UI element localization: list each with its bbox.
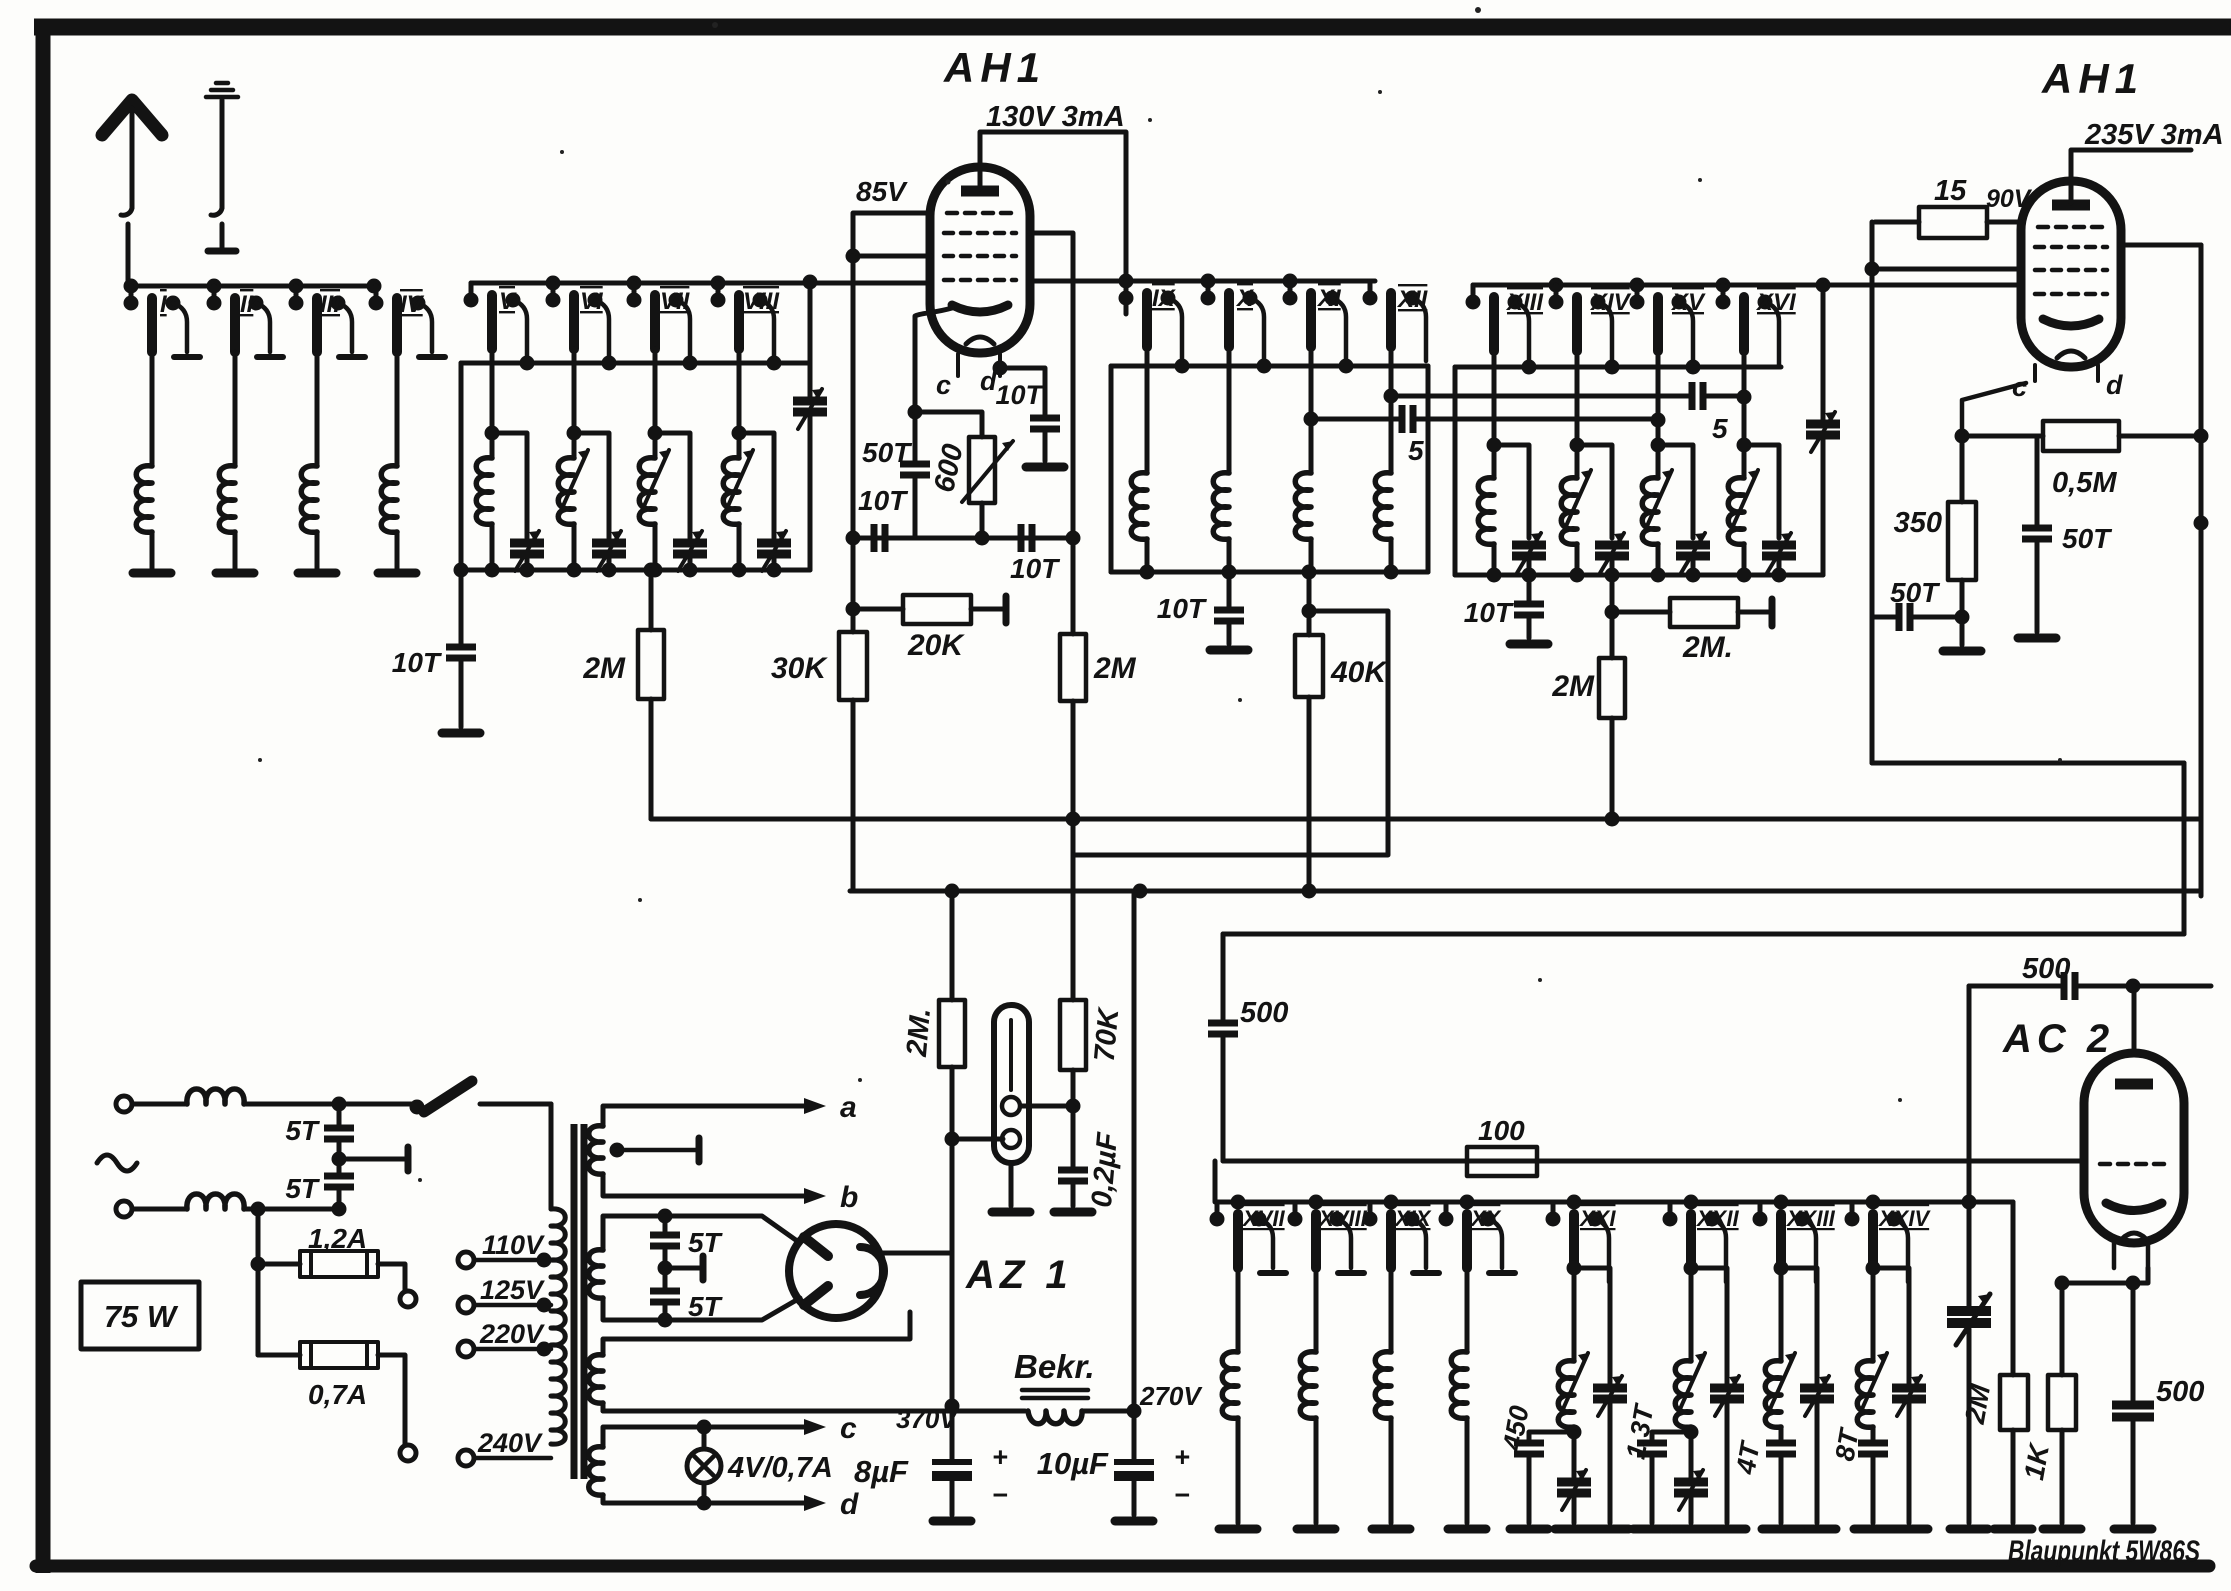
tuned circuit XXIII [1781, 1268, 1817, 1523]
switch contact V [464, 283, 528, 363]
bus V-VIII to tube grid wire [471, 281, 931, 286]
svg-text:5T: 5T [688, 1291, 724, 1322]
bus E grid AC2 [1223, 1159, 2083, 1164]
svg-text:50T: 50T [2062, 523, 2113, 554]
resistor 2M vertical [1599, 658, 1625, 718]
svg-text:2M: 2M [1093, 652, 1137, 685]
svg-text:1K: 1K [2018, 1440, 2055, 1482]
box bottom wire tube2 [1872, 761, 2184, 766]
pin c [956, 354, 960, 376]
svg-text:X: X [1235, 285, 1255, 312]
svg-text:AH1: AH1 [2041, 55, 2144, 102]
svg-text:20K: 20K [907, 629, 965, 662]
trimmer under XXII [1689, 1432, 1694, 1523]
svg-text:XV: XV [1670, 289, 1706, 316]
wire 270V vertical [1132, 891, 1137, 1411]
tuned circuit XIV [1577, 351, 1612, 575]
svg-text:10T: 10T [392, 647, 443, 678]
node fuse feed [251, 1202, 266, 1217]
svg-text:VII: VII [660, 288, 691, 315]
bus D [1223, 932, 2184, 937]
resistor 1K [2060, 1283, 2065, 1523]
bottom bus V-VIII [461, 568, 810, 573]
switch contact XXII [1663, 1202, 1727, 1282]
svg-text:85V: 85V [856, 176, 908, 207]
fuse 0,7A [258, 1355, 405, 1444]
mains switch [410, 1100, 425, 1115]
transformer core [574, 1124, 584, 1479]
bus A [651, 817, 2201, 822]
switch contact I [124, 286, 201, 357]
capacitor 8uF [950, 1406, 955, 1515]
switch contact IV [369, 286, 446, 357]
coil L-XIX [1389, 1268, 1394, 1523]
svg-text:Bekr.: Bekr. [1014, 1348, 1095, 1385]
svg-text:0,7A: 0,7A [308, 1379, 367, 1410]
svg-text:AH1: AH1 [943, 44, 1046, 91]
ground under 350 [1960, 617, 1965, 645]
svg-text:VI: VI [580, 288, 604, 315]
svg-text:XX: XX [1469, 1206, 1502, 1231]
svg-text:XIX: XIX [1393, 1206, 1432, 1231]
coil L-IV [395, 352, 400, 466]
switch contact XIII [1466, 285, 1530, 365]
svg-text:c: c [936, 370, 951, 400]
tuned circuit XXIV [1873, 1268, 1909, 1523]
svg-text:−: − [1174, 1480, 1190, 1510]
box edges IX-XII [1111, 366, 1428, 572]
coil IX [1145, 347, 1150, 572]
coil L-III [315, 352, 320, 466]
capacitor 5T filament lower [650, 1291, 680, 1302]
svg-text:XXIV: XXIV [1877, 1206, 1931, 1231]
tuned circuit XVI [1744, 351, 1779, 575]
svg-text:−: − [992, 1480, 1008, 1510]
mains choke lower [132, 1207, 187, 1212]
svg-text:40K: 40K [1330, 656, 1388, 689]
coil XII [1389, 347, 1394, 572]
svg-text:220V: 220V [479, 1319, 545, 1349]
svg-text:V: V [499, 288, 517, 315]
svg-text:II: II [240, 291, 255, 318]
svg-text:XVII: XVII [1241, 1206, 1285, 1231]
AZ1 output wire [883, 1251, 952, 1256]
capacitor 10T under IX-XII [1227, 572, 1232, 644]
svg-text:10T: 10T [1464, 597, 1515, 628]
capacitor 50T series [1872, 615, 1962, 620]
switch contact X [1201, 281, 1265, 361]
switch contact XII [1363, 281, 1427, 361]
switch contact XIV [1549, 285, 1613, 365]
svg-text:5: 5 [1712, 413, 1728, 444]
left feed vertical tube2 [1870, 222, 1875, 763]
capacitor 450 [1529, 1432, 1574, 1523]
frame border bottom [36, 1560, 2209, 1573]
coil L-I [150, 352, 155, 466]
cathode link tube2 [1962, 383, 2026, 436]
resistor 70K [1071, 855, 1076, 1170]
tube U1 AH1 [930, 167, 1030, 353]
resistor 2M output [2011, 1202, 2016, 1523]
svg-text:IV: IV [400, 291, 425, 318]
earth ground terminal [206, 83, 238, 251]
coil L-XVIII [1314, 1268, 1319, 1523]
antenna bus wire [128, 284, 376, 289]
switch contact XVII [1210, 1202, 1287, 1273]
variable capacitor on V-VIII right edge [808, 283, 813, 570]
bank XIII-XVI top bus [1473, 283, 2021, 288]
antenna symbol [102, 100, 162, 286]
switch contact VI [546, 283, 610, 363]
svg-text:10T: 10T [995, 380, 1044, 410]
switch contact IX [1119, 281, 1183, 361]
wire grid2 tube2 [1872, 267, 2021, 272]
switch contact XI [1283, 281, 1347, 361]
bottom bus IX-XII [1111, 570, 1428, 575]
wire 30K feed [851, 256, 856, 538]
tube U2 AH1 [2021, 181, 2121, 367]
svg-text:500: 500 [1240, 997, 1288, 1029]
box 75W [81, 1282, 199, 1349]
svg-text:+: + [992, 1442, 1008, 1472]
switch contact VIII [711, 283, 775, 363]
svg-text:2M: 2M [582, 652, 626, 685]
riser bus D right [2182, 763, 2187, 934]
capacitor 10T at pin d [1030, 418, 1060, 429]
capacitor 5T filament upper [658, 1209, 673, 1224]
switch contact XIX [1363, 1202, 1440, 1273]
capacitor 500 top left [1221, 934, 1226, 1161]
svg-text:1,2A: 1,2A [308, 1223, 367, 1254]
svg-text:XVIII: XVIII [1317, 1206, 1368, 1231]
mains choke upper [132, 1102, 187, 1107]
capacitor 500 cathode [2131, 1283, 2136, 1523]
switch contact XVIII [1288, 1202, 1365, 1273]
midline bus IX-XII [1111, 364, 1428, 369]
svg-text:70K: 70K [1089, 1005, 1126, 1063]
wire XII to cap 5 [1384, 389, 1399, 404]
rectifier tube AZ1 [789, 1224, 883, 1318]
svg-text:15: 15 [1934, 175, 1967, 207]
frame border top [34, 19, 2231, 36]
svg-text:4V/0,7A: 4V/0,7A [727, 1452, 833, 1484]
svg-text:100: 100 [1478, 1115, 1525, 1146]
right vertical V1 [2199, 245, 2204, 896]
coil L-XVII [1236, 1268, 1241, 1523]
capacitor 4T [1766, 1443, 1796, 1454]
svg-text:75 W: 75 W [104, 1299, 179, 1334]
svg-text:XII: XII [1396, 286, 1429, 313]
tuned circuit XXI [1574, 1268, 1610, 1523]
screen exit wire tube2 [2119, 243, 2201, 248]
svg-text:90V: 90V [1986, 185, 2033, 213]
tuned circuit XXII [1691, 1268, 1727, 1523]
capacitor 10uF [1132, 1411, 1137, 1515]
node between 5T [332, 1152, 347, 1167]
resistor 0,5M [1962, 434, 2201, 439]
frame border left [36, 20, 51, 1573]
switch contact XXIII [1753, 1202, 1817, 1282]
svg-text:350: 350 [1894, 507, 1942, 539]
potentiometer 600 [915, 412, 982, 538]
mains terminal lower [116, 1201, 132, 1217]
trimmer under XXI [1572, 1432, 1577, 1523]
node filament mid [658, 1261, 673, 1276]
switch contact XX [1439, 1202, 1516, 1273]
tuned circuit VIII [739, 349, 774, 570]
svg-text:XXIII: XXIII [1785, 1206, 1836, 1231]
resistor 2M horizontal [1610, 575, 1615, 658]
svg-text:2M: 2M [1551, 670, 1595, 703]
coil L-XX [1465, 1268, 1470, 1523]
tuned circuit VI [574, 349, 609, 570]
magic eye tube [994, 1005, 1029, 1163]
capacitor 1,3T [1652, 1432, 1691, 1523]
bottom bus XIII-XVI [1455, 573, 1823, 578]
capacitor 50T shunt [2035, 436, 2040, 632]
svg-text:VIII: VIII [743, 288, 780, 315]
svg-text:240V: 240V [477, 1428, 543, 1458]
coil XI [1309, 347, 1314, 572]
svg-text:XVI: XVI [1755, 289, 1797, 316]
svg-text:50T: 50T [862, 437, 913, 468]
cathode wire [915, 308, 952, 538]
tap 220V [458, 1341, 474, 1357]
secondary winding a-b [603, 1106, 806, 1126]
pin d tube2 [2096, 365, 2100, 381]
coil L-II [233, 352, 238, 466]
capacitor 5T upper [337, 1104, 342, 1209]
oscillator bottom bus [853, 536, 1073, 541]
svg-text:10T: 10T [1010, 553, 1061, 584]
capacitor 50T [900, 464, 930, 475]
svg-text:b: b [840, 1181, 858, 1214]
capacitor 10T under XIII [1527, 575, 1532, 638]
wire 370V [603, 1409, 1025, 1414]
svg-text:2M.: 2M. [901, 1007, 937, 1059]
wire pin d to 10T [993, 361, 1008, 376]
tuned circuit V [492, 349, 527, 570]
wire B+ down [950, 1253, 955, 1406]
switch contact III [289, 286, 366, 357]
svg-text:d: d [2106, 370, 2123, 400]
svg-text:5T: 5T [285, 1115, 321, 1146]
wire XI to cap 5 [1304, 412, 1319, 427]
switch contact XXIV [1845, 1202, 1909, 1282]
svg-text:XXII: XXII [1695, 1206, 1739, 1231]
AC symbol [97, 1155, 137, 1171]
resistor 2M right of tube [1071, 538, 1076, 855]
node on antenna bus [124, 279, 139, 294]
resistor 20K [846, 602, 861, 617]
capacitor 10T left [459, 570, 464, 727]
anode wire 235V [2071, 150, 2191, 203]
svg-text:10T: 10T [1157, 593, 1208, 624]
fuse 1,2A [258, 1264, 405, 1290]
svg-text:30K: 30K [771, 652, 828, 685]
wire 70K to magic eye [1066, 1099, 1081, 1114]
pin d [998, 354, 1002, 376]
svg-text:10µF: 10µF [1037, 1446, 1109, 1481]
scan specks [258, 7, 2062, 1182]
wire grid3 [846, 249, 861, 264]
secondary winding lamp [603, 1427, 806, 1447]
svg-text:III: III [320, 291, 341, 318]
tap 110V [458, 1252, 474, 1268]
resistor 40K [1307, 572, 1312, 891]
secondary winding HV [603, 1312, 910, 1355]
AC2 cathode wiring [2062, 1268, 2148, 1283]
svg-text:XI: XI [1316, 285, 1342, 312]
midline bus V-VIII [461, 361, 810, 366]
bus C [850, 889, 2201, 894]
coil X [1227, 347, 1232, 572]
svg-text:270V: 270V [1139, 1381, 1203, 1411]
switch contact XV [1630, 285, 1694, 365]
svg-text:d: d [840, 1488, 859, 1521]
svg-text:8µF: 8µF [854, 1454, 909, 1489]
resistor 30K [851, 538, 856, 889]
svg-text:5T: 5T [285, 1173, 321, 1204]
svg-text:AC 2: AC 2 [2002, 1017, 2114, 1061]
big trimmer capacitor [1967, 986, 1972, 1523]
svg-text:a: a [840, 1091, 857, 1124]
svg-text:XIII: XIII [1505, 289, 1544, 316]
svg-text:XIV: XIV [1589, 289, 1632, 316]
svg-text:Blaupunkt 5W86S: Blaupunkt 5W86S [2008, 1535, 2200, 1568]
magic eye wire [945, 1132, 960, 1147]
svg-text:235V 3mA: 235V 3mA [2084, 119, 2224, 151]
svg-text:500: 500 [2022, 953, 2070, 985]
left edge wire V-VIII box [459, 363, 464, 570]
switch contact II [207, 286, 284, 357]
pin c tube2 [2033, 365, 2037, 381]
svg-text:130V 3mA: 130V 3mA [986, 101, 1125, 133]
capacitor 5T lower [324, 1176, 354, 1187]
capacitor 500 top AC2 [1969, 984, 2211, 989]
screen grid wire [1030, 233, 1073, 538]
tap 240V [458, 1450, 474, 1466]
svg-text:110V: 110V [482, 1230, 545, 1260]
bus F [1215, 1161, 2013, 1202]
svg-text:5T: 5T [688, 1227, 724, 1258]
svg-text:IX: IX [1152, 285, 1177, 312]
tuned circuit VII [655, 349, 690, 570]
capacitor 8T [1858, 1443, 1888, 1454]
switch contact VII [627, 283, 691, 363]
svg-text:XXI: XXI [1578, 1206, 1616, 1231]
resistor 2M left [649, 570, 654, 819]
tuned circuit XIII [1494, 351, 1529, 575]
secondary tap to ground bar [610, 1143, 625, 1158]
svg-text:c: c [840, 1412, 857, 1445]
midline bus XIII-XVI [1455, 365, 1781, 370]
bank IX-XII top bus [1126, 279, 1373, 284]
svg-text:5: 5 [1408, 435, 1424, 466]
resistor 100 [1467, 1147, 1537, 1176]
resistor 2M to magic eye [950, 891, 955, 1253]
switch contact XXI [1546, 1202, 1610, 1282]
svg-text:50T: 50T [1890, 577, 1941, 608]
bus B 40K bypass [1073, 611, 1388, 855]
secondary winding AZ1 filament [603, 1216, 800, 1250]
resistor 350 [1960, 436, 1965, 617]
svg-text:AZ 1: AZ 1 [965, 1253, 1073, 1297]
svg-text:125V: 125V [480, 1275, 545, 1305]
tuned circuit XV [1658, 351, 1693, 575]
svg-text:500: 500 [2156, 1376, 2204, 1408]
variable capacitor right edge XIII-XVI [1821, 285, 1826, 575]
svg-text:+: + [1174, 1442, 1190, 1472]
svg-text:2M.: 2M. [1682, 631, 1733, 664]
anode wire 130V [980, 132, 1126, 314]
capacitor 0,2uF [1058, 1170, 1088, 1181]
tap 125V [458, 1297, 474, 1313]
pilot lamp 4V/0,7A [697, 1420, 712, 1435]
svg-text:0,5M: 0,5M [2052, 467, 2117, 499]
left edge XIII-XVI box [1453, 367, 1458, 575]
mains terminal upper [116, 1096, 132, 1112]
transformer primary [549, 1104, 554, 1209]
svg-text:10T: 10T [858, 485, 909, 516]
svg-text:0,2µF: 0,2µF [1086, 1130, 1125, 1209]
switch contact XVI [1716, 285, 1780, 365]
node oscillator [908, 405, 923, 420]
